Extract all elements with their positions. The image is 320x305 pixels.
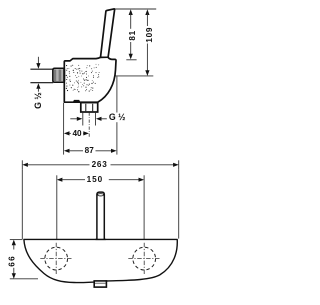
outlet hex nut, side view bottom: [81, 103, 98, 112]
dimension 87 (total depth), between views: [64, 146, 117, 155]
dimension 81 (lever top to body top), side view right: [126, 9, 137, 59]
front face extension line, side view: [116, 76, 118, 154]
svg-text:66: 66: [8, 255, 17, 267]
svg-text:40: 40: [72, 129, 82, 138]
small detail bump on body underside, side view: [73, 100, 81, 102]
svg-text:263: 263: [92, 160, 108, 169]
svg-text:87: 87: [85, 146, 95, 155]
outlet centerline (dash-dot): [88, 113, 90, 138]
extension line: inlet centerline to 109 dimension: [90, 75, 153, 77]
mixer body, side view outline: [64, 57, 116, 102]
inlet pipe stub, side view left: [30, 69, 53, 83]
mixer body, front view outline: [24, 239, 177, 282]
wall plane extension line, side view: [63, 103, 65, 155]
left inlet connection circle (dashed), front view: [40, 243, 72, 275]
svg-text:G ½: G ½: [33, 92, 43, 109]
right inlet connection circle (dashed), front view: [128, 243, 160, 275]
outlet thread extension lines, side view: [83, 112, 96, 125]
stipple texture on body, side view: [66, 64, 100, 92]
dimension 263 (overall width), front view top: [22, 160, 178, 169]
svg-text:150: 150: [87, 175, 104, 184]
dimension G 1/2 outlet, side view bottom: [70, 112, 127, 122]
dimension 150 (inlet spacing), front view: [57, 175, 144, 184]
lever handle, front view: [96, 192, 106, 239]
dimension 66 (body height), front view left: [8, 240, 39, 279]
extension lines for 263 down to body corners: [22, 169, 178, 239]
extension lines for 150 down to body: [57, 175, 144, 239]
dimension 40 (wall to outlet center), side view bottom: [64, 129, 89, 138]
svg-text:81: 81: [128, 30, 137, 41]
svg-text:109: 109: [145, 27, 154, 43]
threaded nipple G1/2, side view: [53, 68, 65, 82]
outlet spout, front view bottom: [94, 281, 106, 287]
side view: top dimension extension line from lever tip: [114, 8, 157, 10]
dimension G 1/2 inlet, side view left: [33, 57, 43, 109]
svg-text:G ½: G ½: [109, 112, 126, 122]
lever handle, side view: [101, 9, 115, 58]
dimension 109 (lever top to inlet centerline), side view right: [145, 9, 154, 76]
